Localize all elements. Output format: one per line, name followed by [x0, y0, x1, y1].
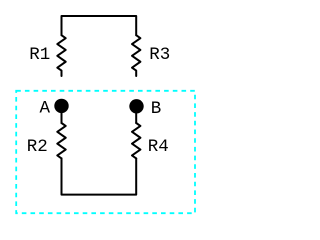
resistor R1 — [29, 35, 65, 76]
svg-text:R1: R1 — [29, 45, 50, 65]
wire bottom — [62, 158, 137, 194]
wire B to R4 — [135, 107, 137, 123]
wire A to R2 — [61, 106, 63, 123]
resistor R3 — [132, 35, 170, 76]
svg-text:R3: R3 — [149, 45, 170, 65]
dashed selection box — [16, 91, 195, 213]
wire top — [62, 16, 137, 35]
resistor R2 — [27, 123, 66, 158]
svg-text:B: B — [151, 99, 162, 119]
svg-text:A: A — [40, 99, 51, 119]
svg-text:R4: R4 — [148, 137, 169, 157]
node A — [40, 99, 69, 119]
node B — [129, 99, 161, 119]
svg-text:R2: R2 — [27, 137, 48, 157]
resistor R4 — [132, 123, 169, 158]
